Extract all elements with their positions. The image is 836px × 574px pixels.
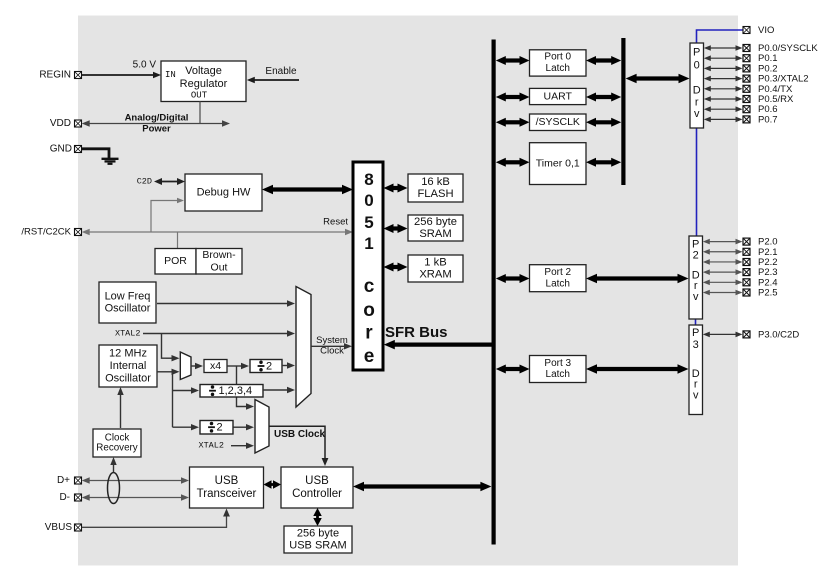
label Reset [323, 217, 348, 228]
port 0 latch block [530, 50, 587, 76]
svg-text:P2.5: P2.5 [758, 288, 778, 299]
256 byte SRAM block [408, 215, 463, 241]
svg-text:Voltage: Voltage [185, 65, 222, 77]
system clock mux [296, 287, 311, 408]
svg-text:Out: Out [211, 261, 228, 273]
wire P2 drv to pin P2.1 [703, 249, 743, 255]
wire P2 drv to pin P2.3 [703, 269, 743, 275]
brown-out block [196, 249, 242, 275]
svg-text:3: 3 [693, 339, 699, 351]
wire clock mux to x4 [191, 363, 203, 369]
wire P0 drv to pin P0.7 [704, 117, 743, 123]
port 2 latch block [530, 265, 587, 292]
pin P2.2 [743, 259, 750, 266]
svg-text:x4: x4 [210, 360, 221, 372]
svg-text:System: System [316, 335, 348, 346]
pin D+ [75, 477, 82, 484]
svg-text:0: 0 [364, 191, 373, 210]
svg-text:VIO: VIO [758, 25, 774, 36]
divide 1,2,3,4 block [200, 385, 263, 398]
clock recovery block [93, 429, 141, 457]
bus core to flash [384, 184, 408, 193]
wire P0 drv to pin P0.1 [704, 55, 743, 61]
svg-text:256 byte: 256 byte [297, 527, 339, 539]
wire branch to usb divide 2 [173, 424, 200, 430]
svg-text:v: v [693, 291, 699, 303]
svg-text:256 byte: 256 byte [414, 216, 457, 228]
bus spine to uart [496, 93, 530, 102]
label GND [50, 144, 72, 155]
svg-text:/RST/C2CK: /RST/C2CK [21, 227, 71, 238]
label P2.4 [758, 277, 778, 288]
label P2.3 [758, 267, 778, 278]
svg-text:USB Clock: USB Clock [274, 429, 326, 440]
svg-text:Latch: Latch [546, 369, 570, 380]
svg-text:e: e [364, 346, 375, 367]
svg-text:Internal: Internal [110, 360, 147, 372]
pin P0.4/TX [743, 85, 750, 92]
pin P2.4 [743, 279, 750, 286]
pin /RST/C2CK [75, 229, 82, 236]
bus SFR horizontal [384, 340, 495, 350]
wire D+ to usb transceiver [82, 477, 189, 483]
pin P0.5/RX [743, 96, 750, 103]
bus usb transceiver to controller [264, 480, 282, 489]
svg-text:Brown-: Brown- [202, 249, 236, 261]
svg-text:0: 0 [694, 60, 700, 72]
svg-text:2: 2 [217, 422, 223, 434]
bus spine to sysclk [496, 118, 530, 127]
svg-text:D: D [693, 84, 701, 96]
wire XTAL2 to system mux [143, 330, 295, 336]
pin VDD [75, 120, 82, 127]
svg-text:Power: Power [142, 123, 171, 134]
svg-text:P: P [693, 47, 700, 59]
svg-text:Timer 0,1: Timer 0,1 [536, 158, 580, 170]
wire Enable into regulator [247, 77, 299, 83]
svg-text:SRAM: SRAM [419, 228, 451, 240]
x4 multiplier block [204, 360, 227, 373]
svg-text:Port 2: Port 2 [544, 267, 571, 278]
16 kB FLASH block [408, 174, 463, 202]
label P3.0/C2D [758, 329, 799, 340]
svg-text:Debug HW: Debug HW [197, 187, 251, 199]
wire clock recovery to internal osc [117, 387, 123, 428]
label Enable [265, 66, 297, 77]
P2 Drv label [692, 238, 700, 303]
usb clock mux [255, 400, 269, 454]
label Analog/Digital Power [125, 112, 189, 134]
label System Clock [316, 335, 348, 357]
port 3 latch block [530, 356, 587, 383]
bus spine to port3 latch [496, 365, 530, 374]
svg-text:5: 5 [364, 213, 373, 232]
wire P0 drv to pin P0.3/XTAL2 [704, 76, 743, 82]
svg-text:XTAL2: XTAL2 [198, 441, 224, 451]
low freq oscillator block [99, 282, 156, 323]
P3 Drv block [689, 325, 703, 415]
wire REGIN to voltage regulator [82, 72, 161, 78]
divide-by-2 block (usb) [200, 421, 233, 435]
label /RST/C2CK [21, 227, 71, 238]
pin REGIN [75, 72, 82, 79]
svg-text:1: 1 [364, 234, 373, 253]
pin P0.6 [743, 106, 750, 113]
bus crossbar to P0 Drv [626, 74, 690, 84]
wire internal osc to clock mux [157, 369, 180, 375]
svg-text:XTAL2: XTAL2 [115, 329, 141, 339]
wire P2 drv to pin P2.5 [703, 290, 743, 296]
bus uart to crossbar [586, 93, 621, 102]
bus core to xram [384, 263, 408, 272]
bus port2 latch to P2 Drv [586, 274, 689, 284]
bus port0 latch to crossbar [586, 56, 621, 65]
net VIO blue wire [697, 30, 743, 43]
svg-text:c: c [364, 276, 375, 297]
debug hw block [185, 174, 262, 211]
wire VDD analog/digital power [82, 120, 230, 126]
8051 core label core [363, 276, 375, 367]
wire P0 drv to pin P0.6 [704, 106, 743, 112]
svg-text:Latch: Latch [546, 63, 570, 74]
wire x4 to divide 2 [227, 363, 249, 369]
label SFR Bus [385, 324, 448, 341]
wire system clock to core [311, 343, 352, 349]
wire divide1234 to system mux [263, 387, 295, 393]
svg-text:XRAM: XRAM [419, 269, 451, 281]
usb controller block [281, 467, 353, 508]
pin P2.1 [743, 248, 750, 255]
label XTAL2 (system) [115, 329, 141, 339]
pin label OUT [191, 91, 208, 101]
wire P2 drv to pin P2.0 [703, 239, 743, 245]
wire osc branch down to dividers [172, 372, 174, 427]
wire usb divide2 to usb mux [234, 424, 255, 430]
svg-text:D+: D+ [57, 475, 70, 486]
pin GND [75, 146, 82, 153]
8051 core block [353, 162, 383, 370]
wire regulator OUT down [199, 102, 201, 124]
wire XTAL2 branch arrow [166, 355, 180, 361]
svg-text:SFR Bus: SFR Bus [385, 324, 448, 341]
usb transceiver block [190, 467, 264, 508]
divide-by-2 block (sysclk) [250, 360, 282, 373]
svg-text:Latch: Latch [546, 278, 570, 289]
wire P0 drv to pin P0.4/TX [704, 86, 743, 92]
voltage regulator U1 [161, 61, 246, 102]
bus spine to port0 latch [496, 56, 530, 65]
svg-text:Clock: Clock [320, 346, 344, 357]
pin P2.5 [743, 289, 750, 296]
svg-text:OUT: OUT [191, 91, 208, 101]
12 MHz internal oscillator block [99, 345, 157, 387]
/SYSCLK block [530, 114, 587, 131]
wire P2 drv to pin P2.4 [703, 280, 743, 286]
svg-text:r: r [365, 323, 373, 344]
label P2.0 [758, 237, 778, 248]
1 kB XRAM block [408, 255, 463, 282]
net blue wire P2 to P3 [695, 319, 697, 325]
pin P0.7 [743, 116, 750, 123]
label P0.2 [758, 63, 778, 74]
pin P0.3/XTAL2 [743, 75, 750, 82]
svg-text:1,2,3,4: 1,2,3,4 [219, 385, 253, 397]
wire divide2 to system mux [282, 362, 295, 368]
label 5.0 V [133, 60, 157, 71]
label P0.7 [758, 114, 778, 125]
label C2D [137, 177, 152, 187]
diagram background panel [78, 16, 738, 566]
wire VBUS to usb transceiver [82, 509, 230, 528]
label P2.5 [758, 288, 778, 299]
svg-text:P3.0/C2D: P3.0/C2D [758, 329, 799, 340]
POR block [155, 249, 196, 275]
svg-text:Port 3: Port 3 [544, 358, 571, 369]
wire XTAL2 to usb mux [231, 443, 254, 449]
bus usb controller to usb sram [313, 508, 322, 526]
ground symbol [102, 159, 119, 164]
bus Debug HW to 8051 core [262, 185, 353, 195]
pin P0.2 [743, 65, 750, 72]
wire P0 drv to pin P0.5/RX [704, 96, 743, 102]
pin D- [75, 494, 82, 501]
bus crossbar vertical [621, 38, 625, 185]
svg-text:USB: USB [215, 475, 239, 487]
label P0.5/RX [758, 94, 794, 105]
svg-text:Analog/Digital: Analog/Digital [125, 112, 189, 123]
label P0.4/TX [758, 84, 793, 95]
svg-text:UART: UART [544, 91, 573, 103]
bus timer to crossbar [586, 158, 621, 167]
svg-text:1 kB: 1 kB [424, 256, 446, 268]
label D+ [57, 475, 70, 486]
voltage regulator text [180, 65, 228, 90]
P2 Drv block [689, 236, 703, 319]
svg-text:v: v [693, 389, 699, 401]
clock input mux [180, 352, 191, 380]
svg-text:2: 2 [266, 361, 272, 373]
pin label IN [165, 70, 176, 80]
wire P3 drv to pin P3.0/C2D [703, 332, 743, 338]
wire branch to divide 1234 [173, 387, 200, 393]
svg-text:GND: GND [50, 144, 72, 155]
svg-text:Port 0: Port 0 [544, 52, 571, 63]
bus usb controller to spine [353, 482, 491, 492]
256 byte usb sram block [284, 526, 352, 553]
svg-text:P: P [692, 327, 699, 339]
svg-text:C2D: C2D [137, 177, 152, 187]
wire GND to ground symbol [82, 149, 109, 158]
pin P2.0 [743, 238, 750, 245]
label VBUS [45, 522, 73, 533]
wire P2 drv to pin P2.2 [703, 259, 743, 265]
wire C2D to Debug HW [154, 178, 185, 185]
8051 core label digits [364, 170, 373, 253]
svg-text:16 kB: 16 kB [421, 176, 450, 188]
UART block [530, 88, 587, 104]
label P0.6 [758, 104, 778, 115]
bus spine to port2 latch [496, 274, 530, 283]
wire low freq osc to system mux [157, 300, 295, 306]
svg-text:Oscillator: Oscillator [105, 373, 151, 385]
label P2.2 [758, 257, 778, 268]
svg-text:Recovery: Recovery [96, 442, 137, 453]
label VDD [50, 118, 71, 129]
pin P0.0/SYSCLK [743, 45, 750, 52]
net blue wire P0 to P2 [696, 128, 698, 236]
label D- [59, 492, 70, 503]
label P0.3/XTAL2 [758, 74, 809, 85]
svg-text:Oscillator: Oscillator [105, 303, 151, 315]
svg-text:v: v [694, 108, 700, 120]
wire USB clock to USB controller [269, 426, 328, 466]
timer 0,1 block [530, 143, 587, 185]
pin P2.3 [743, 269, 750, 276]
svg-text:USB SRAM: USB SRAM [289, 540, 346, 552]
wire P0 drv to pin P0.0/SYSCLK [704, 45, 743, 51]
bus spine to timer [496, 158, 530, 167]
pin VIO [743, 27, 750, 34]
svg-text:POR: POR [164, 255, 187, 267]
label USB Clock [274, 429, 326, 440]
wire ellipse to clock recovery [110, 457, 116, 473]
svg-text:8: 8 [364, 170, 373, 189]
svg-text:P0.7: P0.7 [758, 114, 778, 125]
svg-text:Transceiver: Transceiver [197, 488, 257, 500]
svg-text:REGIN: REGIN [39, 70, 71, 81]
wire D- to usb transceiver [82, 494, 189, 500]
label P0.1 [758, 53, 778, 64]
label REGIN [39, 70, 71, 81]
bus core to sram [384, 224, 408, 233]
svg-text:o: o [363, 300, 375, 321]
svg-text:12 MHz: 12 MHz [109, 347, 147, 359]
label P2.1 [758, 247, 778, 258]
bus port3 latch to P3 Drv [586, 364, 689, 374]
svg-text:USB: USB [305, 475, 329, 487]
wire XTAL2 branch to clock mux [162, 334, 167, 359]
pin P3.0/C2D [743, 331, 750, 338]
pin P0.1 [743, 55, 750, 62]
P3 Drv label [692, 327, 700, 401]
wire P0 drv to pin P0.2 [704, 66, 743, 72]
wire /RST/C2CK to core [82, 229, 353, 235]
bus SFR vertical spine [492, 40, 496, 545]
svg-text:Reset: Reset [323, 217, 348, 228]
wire branch down to usb mux [237, 366, 255, 410]
svg-text:FLASH: FLASH [417, 188, 453, 200]
label P0.0/SYSCLK [758, 43, 818, 54]
svg-text:/SYSCLK: /SYSCLK [536, 116, 580, 128]
wire reset branch to POR [177, 232, 179, 249]
P0 Drv block [690, 43, 704, 128]
svg-text:D-: D- [59, 492, 70, 503]
usb cable ellipse [108, 473, 120, 504]
svg-text:2: 2 [693, 249, 699, 261]
svg-text:r: r [695, 97, 699, 109]
svg-text:5.0 V: 5.0 V [133, 60, 157, 71]
svg-text:Controller: Controller [292, 488, 342, 500]
label VIO [758, 25, 774, 36]
pin VBUS [75, 524, 82, 531]
svg-text:Low Freq: Low Freq [105, 291, 151, 303]
svg-text:Regulator: Regulator [180, 78, 228, 90]
P0 Drv label [693, 47, 701, 120]
svg-text:VDD: VDD [50, 118, 71, 129]
label XTAL2 (usb) [198, 441, 224, 451]
svg-text:Enable: Enable [265, 66, 297, 77]
svg-text:IN: IN [165, 70, 176, 80]
wire reset branch to Debug HW [151, 198, 184, 232]
bus sysclk to crossbar [586, 118, 621, 127]
svg-text:VBUS: VBUS [45, 522, 73, 533]
